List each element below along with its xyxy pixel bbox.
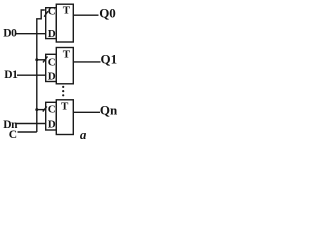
svg-text:C: C [48,5,56,17]
svg-text:Q1: Q1 [101,52,118,67]
node junction dot FF2 clock tap [35,58,38,61]
flip-flop FF1 control box [46,8,57,39]
node junction dot FF3 clock tap [35,108,38,111]
wire Qn output [73,111,100,113]
svg-text:Q0: Q0 [99,5,116,20]
clock edge wedge FF2 [43,57,48,63]
flip-flop FF2 main box [56,48,73,84]
svg-text:D0: D0 [3,28,17,40]
flip-flop FF2 control box [46,54,57,81]
svg-text:T: T [61,101,69,113]
flip-flop FF3 main box [56,100,73,135]
svg-text:D: D [48,28,56,40]
wire Dn input [16,123,46,125]
flip-flop FF3 control box [46,102,57,130]
svg-text:C: C [9,129,17,141]
wire clock stub to FF2 C [37,59,45,61]
wire D1 input [17,74,46,76]
svg-text:C: C [48,56,56,68]
svg-text:D: D [48,119,56,131]
wire D0 input [16,33,46,35]
ellipsis continuation dots [62,86,64,97]
wire C label feed [18,131,37,133]
wire clock stub to FF3 C [37,109,45,111]
flip-flop FF1 main box [56,4,73,42]
svg-text:D: D [48,71,56,83]
wire Q0 output [73,14,98,16]
svg-text:a: a [80,127,87,142]
wire clock vertical with jog [37,10,45,132]
wire Q1 output [73,61,100,63]
svg-text:T: T [63,48,71,60]
svg-text:T: T [63,5,71,17]
svg-text:Qn: Qn [100,102,118,117]
svg-text:C: C [48,104,56,116]
clock edge wedge FF3 [43,106,47,111]
clock edge wedge FF1 [44,11,48,17]
svg-text:D1: D1 [4,69,18,81]
